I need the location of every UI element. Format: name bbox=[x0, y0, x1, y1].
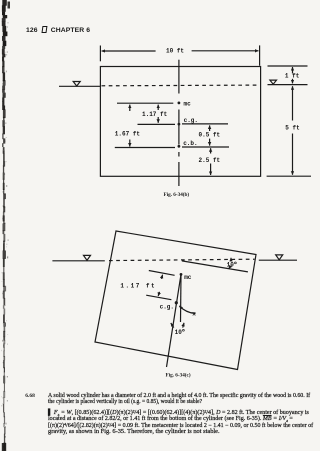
svg-text:1.17 ft: 1.17 ft bbox=[142, 111, 168, 118]
water line left (fig c) bbox=[52, 260, 104, 262]
water level extension line right (fig b) bbox=[268, 84, 308, 86]
header: page number and chapter bbox=[26, 26, 90, 34]
svg-text:Fig. 6-34(b): Fig. 6-34(b) bbox=[164, 191, 190, 198]
lower dim line (c.g. level, fig c) bbox=[146, 295, 171, 300]
block rectangle bbox=[100, 67, 260, 177]
water symbol left (fig b) bbox=[73, 82, 80, 87]
svg-text:c.g.: c.g. bbox=[184, 117, 198, 124]
1.17 ft dimension (fig b) bbox=[142, 105, 168, 123]
svg-text:1.17 ft: 1.17 ft bbox=[120, 283, 156, 290]
mc level line bbox=[117, 102, 173, 104]
c.g. point (fig b) bbox=[178, 123, 181, 126]
svg-text:0.5 ft: 0.5 ft bbox=[199, 131, 221, 138]
problem statement line 2 bbox=[48, 399, 202, 406]
arrow to lower dim line bbox=[158, 292, 159, 296]
tilted body axis (fig c) bbox=[167, 274, 182, 367]
x offset curve and label bbox=[179, 306, 195, 314]
water symbol left (fig c) bbox=[84, 255, 91, 260]
water line left (fig b) bbox=[59, 85, 100, 87]
solution line 4 bbox=[48, 429, 220, 436]
mc point (fig b) bbox=[178, 102, 181, 105]
dim line right w/ arrow bbox=[192, 50, 259, 52]
water symbol right (fig c) bbox=[276, 255, 283, 260]
solution line 1 bbox=[48, 410, 309, 419]
problem number 6.68 bbox=[25, 393, 35, 399]
c.g. level line right bbox=[182, 123, 228, 125]
water symbol right (fig b) bbox=[270, 80, 277, 84]
tilted waterline of body bbox=[182, 261, 248, 272]
water line dashed inside (fig b) bbox=[102, 84, 260, 87]
svg-text:1.67 ft: 1.67 ft bbox=[115, 130, 141, 137]
10 deg lower angle bbox=[171, 323, 185, 336]
c.g. point (fig c) bbox=[175, 301, 178, 304]
10 deg upper angle bbox=[227, 258, 237, 269]
c.b. level line right bbox=[182, 146, 229, 148]
svg-text:x: x bbox=[192, 310, 196, 317]
svg-text:10: 10 bbox=[175, 329, 183, 336]
2.5 ft dimension (fig b) bbox=[199, 148, 221, 175]
svg-text:10: 10 bbox=[227, 261, 235, 268]
1 ft dimension bbox=[268, 66, 308, 83]
water line dashed (fig c) bbox=[109, 259, 255, 260]
vertical buoyancy line (fig c) bbox=[180, 274, 183, 322]
svg-text:1 ft: 1 ft bbox=[285, 73, 300, 80]
mc point (fig c) bbox=[180, 273, 183, 276]
svg-text:10 ft: 10 ft bbox=[166, 47, 184, 54]
svg-text:mc: mc bbox=[184, 100, 192, 107]
5 ft dimension bbox=[267, 86, 311, 176]
solution line 2 bbox=[48, 416, 293, 425]
c.b. level line left bbox=[115, 147, 175, 149]
svg-text:5 ft: 5 ft bbox=[285, 124, 300, 131]
water line right (fig c) bbox=[259, 259, 297, 261]
c.g. level line left bbox=[138, 123, 176, 125]
center line (fig b) bbox=[178, 60, 180, 186]
svg-text:c.g.: c.g. bbox=[160, 304, 174, 311]
upper dim line (mc level, fig c) bbox=[149, 271, 175, 276]
extension tick left bbox=[99, 46, 101, 62]
10 ft dimension bbox=[100, 45, 259, 65]
svg-text:Fig. 6-34(c): Fig. 6-34(c) bbox=[166, 371, 191, 378]
svg-text:c.b.: c.b. bbox=[183, 140, 197, 147]
solution line 3 bbox=[48, 423, 313, 430]
arrow to upper dim line bbox=[161, 275, 162, 279]
svg-text:2.5 ft: 2.5 ft bbox=[199, 157, 221, 164]
0.5 ft dimension (fig b) bbox=[199, 125, 221, 145]
c.b. point (fig b) bbox=[178, 145, 181, 148]
extension tick right bbox=[259, 45, 261, 65]
problem statement line 1 bbox=[48, 393, 310, 400]
tilted block bbox=[95, 231, 256, 370]
svg-text:mc: mc bbox=[184, 274, 192, 281]
1.67 ft dimension (fig b) bbox=[115, 105, 141, 147]
dim line left w/ arrow bbox=[102, 50, 156, 52]
